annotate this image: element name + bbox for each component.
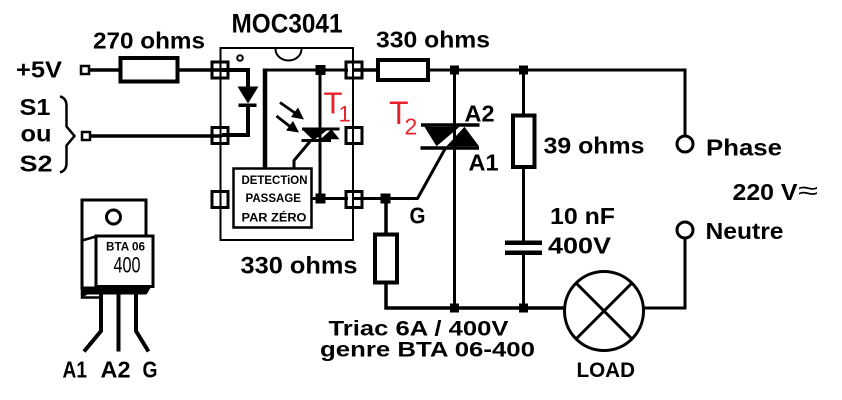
svg-text:DETECTiON: DETECTiON [242,175,308,187]
svg-text:330 ohms: 330 ohms [376,27,490,53]
svg-text:A2: A2 [465,101,495,127]
pin 1 square (anode, left top) [212,62,228,78]
pin 5 square (NC, right middle) [346,128,362,144]
wire top rail pin6 to R2 [354,68,378,72]
node junction bottom rail / T2 [450,304,459,313]
package bottom shelf [83,289,146,295]
svg-text:1: 1 [339,102,351,127]
wire S terminal to pin 2 [90,134,222,138]
triac T1 left triangle [303,130,327,140]
svg-text:ou: ou [21,121,52,147]
package leg G [136,285,149,352]
svg-text:A1: A1 [63,357,88,383]
svg-text:Phase: Phase [706,135,782,161]
inner top rail wire [265,69,348,72]
svg-text:39 ohms: 39 ohms [544,133,645,159]
resistor R2 330 ohms (top) [378,60,428,80]
pin 3 square (NC, left bottom) [212,192,228,208]
LED D1 cathode bar [239,104,257,108]
node junction gate / R330 bottom [381,194,391,204]
triac T1 right triangle [321,129,340,139]
wire R1 to pin 1 [178,68,223,72]
resistor R4 39 ohms [513,116,535,168]
terminal S1/S2 input [82,132,90,140]
triac T1 bottom bar [302,139,332,142]
triac T2 top bar [421,123,480,127]
svg-text:Neutre: Neutre [706,218,784,244]
wire capacitor to bottom rail [522,255,525,308]
wire +5V terminal to R1 [89,68,121,72]
svg-text:S1: S1 [20,94,51,120]
wire R39 to capacitor [522,167,525,241]
svg-text:PASSAGE: PASSAGE [246,193,302,205]
triac T2 left triangle [425,127,460,147]
lamp LOAD circle [565,272,644,351]
svg-text:A1: A1 [469,150,499,176]
svg-text:G: G [410,203,426,229]
wire node to R330 bottom [384,199,388,235]
svg-text:+5V: +5V [16,57,63,83]
LED D1 triangle [238,87,259,104]
resistor R1 270 ohms [121,58,178,82]
wire T1 main vertical [319,70,322,199]
pin 2 square (cathode, left middle) [212,128,228,144]
svg-text:G: G [143,357,158,383]
pin-1 indicator dot [237,55,243,61]
terminal +5V input [81,66,89,74]
node junction top rail / R39 [519,66,528,75]
wire pin 4 to G node [354,197,419,200]
brace S1/S2 [60,97,75,173]
wire Neutre down to load [644,238,685,308]
svg-text:330 ohms: 330 ohms [241,253,358,280]
node junction T1 / gate wire [316,194,326,204]
triac T2 right triangle [447,127,480,147]
lamp LOAD X diagonal 2 [577,284,632,339]
package leg A1 [84,285,101,352]
pin 4 square (right bottom) [346,192,362,208]
svg-text:270 ohms: 270 ohms [93,28,205,54]
light arrow 1 [280,103,295,114]
svg-text:LOAD: LOAD [577,358,636,382]
triac T2 bottom bar [421,146,480,150]
node junction top rail / T2 [450,66,459,75]
package 3D top edge [82,237,96,241]
package body [96,236,153,287]
resistor R3 330 ohms (vertical) [375,235,397,283]
svg-text:2: 2 [405,114,418,140]
wire R3 down and to bottom rail [386,283,564,309]
package 3D bottom edge [82,289,99,298]
svg-text:400: 400 [114,253,141,278]
package mounting hole [107,210,121,224]
svg-text:220 V: 220 V [733,179,799,205]
triac T1 top bar [302,128,340,131]
zero-cross detection box [234,169,312,228]
node junction top rail / T1 [316,65,326,75]
svg-text:400V: 400V [548,233,612,259]
wire gate diagonal to T2 [418,148,446,199]
node junction bottom rail / C1 [519,304,528,313]
terminal Phase [677,136,693,152]
lamp LOAD X diagonal 1 [577,284,632,339]
transistor Q1 package tab [82,200,146,288]
terminal Neutre [677,222,693,238]
svg-text:BTA 06: BTA 06 [106,240,145,254]
notch at chip top [276,49,302,61]
inner vertical wire to zero-cross box [263,69,268,169]
wire LED cathode to pin 2 [222,107,248,135]
wire T2 main vertical [453,70,456,308]
package 3D bottom diagonal [83,289,96,296]
svg-text:≈: ≈ [798,177,818,205]
capacitor C1 bottom plate [505,251,542,256]
op-amp U1 MOC3041 outline [221,48,354,240]
wire pin1 to LED anode [222,70,248,87]
svg-text:A2: A2 [101,357,131,383]
wire box to pin 4 [312,197,349,200]
svg-text:10 nF: 10 nF [550,203,615,229]
svg-text:S2: S2 [20,151,53,177]
capacitor C1 top plate [505,241,542,246]
light arrow 2 [277,116,291,127]
package leg A2 [117,285,121,352]
pin 6 square (right top) [346,62,362,78]
wire R39 branch top [522,70,525,116]
package shelf bevel [146,287,150,294]
svg-text:MOC3041: MOC3041 [232,9,343,39]
wire T1 gate to zero-cross box [294,142,310,170]
wire R2 to Phase corner [428,70,685,136]
svg-text:genre BTA 06-400: genre BTA 06-400 [320,338,535,362]
svg-text:PAR ZÉRO: PAR ZÉRO [242,212,307,225]
